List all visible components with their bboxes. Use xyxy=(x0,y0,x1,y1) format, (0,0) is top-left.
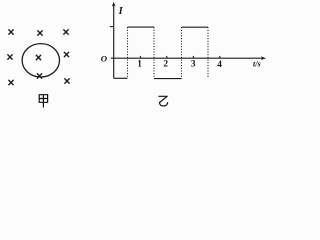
dotted edge at t=2.5 xyxy=(181,27,183,78)
field symbol x row1 col1 xyxy=(9,30,13,34)
svg-text:2: 2 xyxy=(163,60,168,70)
tick t=3 xyxy=(192,56,194,58)
field symbol x row3 col2 (on coil edge) xyxy=(37,74,41,78)
wave low segment 1.5 to 2.5 xyxy=(154,78,182,80)
field symbol x row1 col2 xyxy=(38,31,42,35)
dotted edge at t=3.5 xyxy=(207,27,209,78)
dotted edge at t=0.5 xyxy=(127,27,129,78)
wave low segment 0 to 0.5 xyxy=(114,77,128,79)
tick t=2 xyxy=(166,56,168,58)
I axis (vertical) xyxy=(113,4,115,58)
high level tick on I axis xyxy=(110,26,114,28)
I axis arrowhead xyxy=(112,2,116,7)
svg-text:O: O xyxy=(101,53,108,63)
label yi (second figure) xyxy=(159,96,168,106)
label jia (first figure) xyxy=(39,95,47,107)
coil (circular loop) xyxy=(22,44,59,77)
tick t=4 xyxy=(219,56,221,58)
wave high segment 2.5 to 3.5 xyxy=(182,26,209,28)
field symbol x row3 col3 xyxy=(65,79,69,83)
field symbol x row1 col3 xyxy=(64,30,68,34)
t axis (horizontal) xyxy=(111,57,263,59)
svg-text:1: 1 xyxy=(137,60,142,70)
field symbol x row3 col1 xyxy=(9,80,13,84)
svg-text:4: 4 xyxy=(217,60,222,70)
wave initial drop at t=0 xyxy=(113,58,115,78)
tick t=1 xyxy=(139,56,141,58)
field symbol x row2 col3 xyxy=(64,52,68,56)
t axis arrowhead xyxy=(261,56,266,60)
svg-text:I: I xyxy=(118,6,124,17)
wave high segment 0.5 to 1.5 xyxy=(128,26,155,28)
svg-text:3: 3 xyxy=(191,60,196,70)
field symbol x row2 col1 xyxy=(8,55,12,59)
field symbol x row2 col2 (inside coil) xyxy=(36,55,40,59)
dotted edge at t=1.5 xyxy=(153,27,155,79)
svg-text:t/s: t/s xyxy=(253,59,261,68)
